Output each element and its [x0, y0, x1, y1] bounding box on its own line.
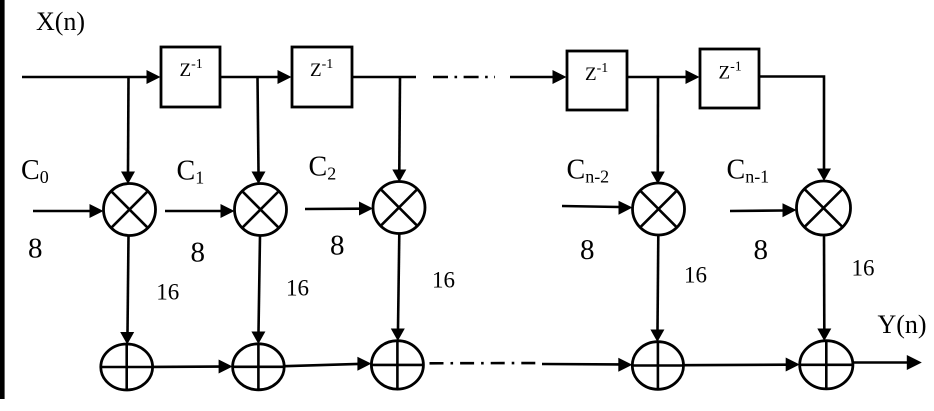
arrowhead into S2 — [251, 332, 265, 345]
wire M3 to S3 — [398, 234, 399, 330]
wire coefficient cn-2 input — [562, 206, 619, 207]
delay block Z1 — [161, 47, 220, 107]
arrowhead into S4 left — [618, 358, 632, 372]
multiplier M3 — [373, 182, 425, 234]
arrowhead into S2 left — [219, 360, 233, 374]
adder S2 — [233, 344, 285, 390]
arrowhead cn-1 into M5 — [783, 203, 797, 217]
multiplier M5 — [797, 181, 851, 235]
delay block Z2 — [292, 47, 352, 107]
arrowhead into Z3 — [553, 70, 567, 84]
arrowhead into M4 — [651, 172, 665, 185]
arrowhead output — [907, 355, 922, 370]
svg-text:8: 8 — [191, 237, 206, 269]
wire M2 to S2 — [259, 236, 261, 333]
svg-text:8: 8 — [330, 230, 345, 262]
arrowhead c0 into M1 — [90, 204, 104, 218]
wire coefficient c2 input — [305, 207, 360, 210]
wire into Z3 — [510, 76, 554, 79]
adder S5 — [800, 341, 853, 389]
arrowhead into S4 — [650, 330, 664, 343]
arrowhead c2 into M3 — [359, 202, 373, 216]
svg-text:8: 8 — [28, 233, 43, 265]
node tap2 branch to M2 — [258, 77, 259, 173]
arrowhead into Z1 — [147, 70, 161, 84]
wire S1 to S2 — [153, 365, 220, 368]
arrowhead into Z4 — [686, 70, 700, 84]
delay block Z4 — [700, 49, 759, 108]
adder S1 — [101, 344, 153, 390]
wire M4 to S4 — [656, 235, 659, 331]
adder S4 — [632, 342, 683, 390]
node tap1 branch to M1 — [127, 77, 130, 173]
svg-text:X(n): X(n) — [36, 7, 85, 36]
svg-text:16: 16 — [852, 256, 875, 281]
multiplier M2 — [235, 184, 287, 236]
wire Z1 to Z2 — [220, 76, 280, 79]
wire M1 to S1 — [128, 236, 129, 334]
arrowhead into M3 — [392, 170, 406, 183]
arrowhead into Z2 — [278, 70, 292, 84]
wire Z3 to Z4 — [627, 76, 688, 79]
wire coefficient c0 input — [33, 210, 90, 213]
svg-text:16: 16 — [286, 276, 309, 301]
wire M5 to S5 — [823, 235, 826, 330]
arrowhead into S5 left — [786, 358, 800, 372]
svg-text:8: 8 — [580, 234, 595, 266]
arrowhead into M1 — [121, 172, 135, 185]
wire input to Z1 — [22, 76, 148, 79]
svg-text:8: 8 — [754, 234, 769, 266]
wire coefficient c1 input — [165, 210, 221, 213]
arrowhead into M2 — [252, 172, 266, 185]
node tap3 branch to M3 — [398, 77, 401, 171]
adder S3 — [371, 341, 423, 389]
multiplier M4 — [633, 183, 685, 235]
wire Z4 output down to M5 — [759, 77, 824, 170]
arrowhead into S1 — [120, 332, 134, 345]
svg-text:Y(n): Y(n) — [878, 310, 927, 339]
arrowhead into S5 — [817, 329, 831, 342]
left page border bar — [0, 0, 5, 399]
arrowhead into S3 — [391, 329, 405, 342]
svg-text:16: 16 — [432, 268, 455, 293]
arrowhead into M5 — [817, 169, 831, 182]
delay block Z3 — [567, 51, 627, 110]
wire Z2 output — [352, 76, 416, 79]
wire coefficient cn-1 input — [730, 209, 783, 212]
arrowhead into S3 left — [357, 357, 371, 371]
wire S2 to S3 — [284, 364, 358, 366]
wire S4 to S5 — [684, 363, 788, 366]
node tap4 branch to M4 — [656, 77, 659, 173]
arrowhead cn-2 into M4 — [619, 201, 633, 215]
wire output Y(n) — [853, 361, 908, 364]
wire into S4 — [542, 363, 620, 366]
svg-text:16: 16 — [156, 280, 179, 305]
wire dash-dot continuation bottom — [430, 362, 541, 365]
arrowhead c1 into M2 — [221, 204, 235, 218]
multiplier M1 — [104, 184, 156, 236]
svg-text:16: 16 — [684, 263, 707, 288]
wire dash-dot continuation top — [433, 76, 495, 79]
